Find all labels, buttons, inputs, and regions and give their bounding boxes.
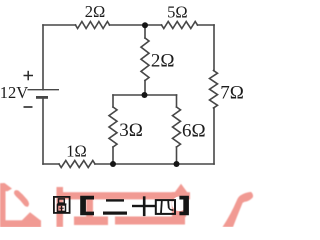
red watermark left character partial (0, 183, 41, 227)
wire middle vertical lower stub (144, 81, 146, 96)
watermark bottom bar segment 2 (74, 217, 108, 226)
battery minus sign (24, 106, 33, 108)
wire top-right segment (198, 24, 215, 26)
watermark middle inner vertical (86, 198, 93, 218)
resistor R=2ohm top zigzag (76, 22, 110, 29)
caption glyph er (two) (103, 199, 127, 215)
node D bottom-right junction (174, 161, 180, 167)
svg-text:2Ω: 2Ω (151, 50, 175, 71)
wire middle vertical upper stub (144, 25, 146, 38)
circuit wires (43, 22, 218, 168)
watermark left top slant stroke (0, 183, 12, 191)
red watermark right diagonal stroke (223, 192, 254, 227)
caption glyph shi (ten) (132, 196, 156, 216)
battery short plate (36, 96, 48, 99)
node B middle junction (142, 92, 148, 98)
svg-text:7Ω: 7Ω (220, 82, 244, 103)
caption glyph right bracket (179, 196, 189, 216)
wire 3ohm lower stub (112, 147, 114, 164)
watermark middle right vertical block (172, 192, 186, 217)
svg-text:5Ω: 5Ω (167, 2, 188, 21)
caption glyph left bracket (80, 196, 94, 216)
battery long plate (28, 89, 60, 91)
wire left lower (from battery) (42, 97, 44, 164)
svg-text:3Ω: 3Ω (119, 120, 143, 141)
svg-text:2Ω: 2Ω (85, 2, 106, 21)
watermark middle top bar (57, 192, 190, 199)
wire right upper segment (213, 25, 215, 71)
watermark left diagonal wedge (21, 212, 41, 222)
watermark arrowhead triangle (172, 184, 190, 196)
wire middle horizontal (113, 94, 177, 96)
resistor R=7ohm right zigzag (210, 71, 218, 109)
wire top-left segment (43, 24, 76, 26)
wire bottom-left segment (43, 163, 59, 165)
wire 6ohm lower stub (176, 147, 178, 164)
resistor R=5ohm top zigzag (162, 22, 198, 29)
wire left upper (to battery) (42, 25, 44, 90)
caption glyph si (four) (156, 200, 175, 214)
wire top-middle segment (110, 24, 162, 26)
wire 6ohm upper stub (176, 95, 178, 107)
svg-text:12V: 12V (0, 83, 28, 102)
resistor R=1ohm bottom zigzag (59, 161, 95, 168)
resistor R=2ohm middle vertical zigzag (141, 38, 149, 81)
wire bottom-right segment (95, 163, 214, 165)
svg-text:6Ω: 6Ω (182, 121, 206, 142)
watermark left vertical bar (0, 184, 6, 227)
watermark left comma blob (14, 190, 29, 207)
resistor R=3ohm zigzag (109, 107, 117, 147)
resistor R=6ohm zigzag (173, 107, 181, 147)
watermark left bottom bar (0, 220, 41, 227)
watermark bottom bar segment 3 (115, 217, 185, 225)
node C bottom-left junction (110, 161, 116, 167)
battery plus sign (24, 71, 34, 81)
watermark middle left tall vertical (57, 187, 64, 227)
red watermark middle character strokes (57, 184, 191, 227)
svg-text:1Ω: 1Ω (66, 142, 87, 161)
battery V1 plates (28, 90, 60, 98)
watermark white disc (172, 197, 187, 212)
wire 3ohm upper stub (112, 95, 114, 107)
caption glyph tu (圖) (54, 197, 70, 213)
node A top junction (142, 22, 148, 28)
wire right lower segment (213, 108, 215, 164)
